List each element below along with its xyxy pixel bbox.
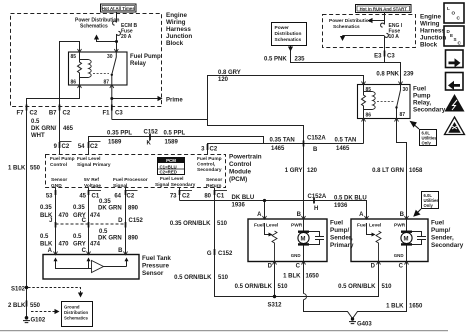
svg-text:DK BLU: DK BLU (232, 195, 255, 201)
svg-text:510: 510 (217, 221, 228, 227)
svg-text:C: C (399, 264, 404, 270)
svg-text:BLK: BLK (40, 242, 53, 248)
svg-text:510: 510 (218, 275, 229, 281)
svg-text:0.35 PPL: 0.35 PPL (107, 131, 132, 137)
svg-text:Distribution: Distribution (275, 31, 302, 37)
svg-text:F7: F7 (16, 111, 24, 117)
svg-text:550: 550 (30, 166, 41, 172)
svg-text:20 A: 20 A (121, 34, 132, 40)
svg-text:(PCM): (PCM) (229, 176, 247, 183)
svg-text:G102: G102 (31, 318, 46, 324)
svg-text:550: 550 (30, 303, 41, 309)
svg-text:0.35: 0.35 (99, 199, 111, 205)
svg-text:1 BLK: 1 BLK (386, 304, 404, 310)
svg-text:239: 239 (404, 72, 415, 78)
svg-text:Sensor: Sensor (142, 270, 164, 277)
svg-text:Fuel Pump: Fuel Pump (50, 156, 75, 162)
svg-text:G: G (207, 251, 212, 257)
svg-text:C3: C3 (115, 111, 123, 117)
svg-text:C2: C2 (210, 147, 218, 153)
svg-text:DK GRN/: DK GRN/ (31, 126, 57, 132)
svg-text:Wiring: Wiring (166, 19, 186, 26)
svg-text:120: 120 (307, 168, 318, 174)
svg-text:M: M (404, 236, 409, 242)
svg-text:0.8 GRY: 0.8 GRY (218, 70, 241, 76)
svg-text:120: 120 (218, 77, 229, 83)
svg-text:Level: Level (369, 223, 381, 229)
svg-text:890: 890 (128, 206, 139, 212)
svg-text:Control,: Control, (197, 162, 216, 168)
svg-text:B: B (400, 212, 405, 218)
svg-text:1589: 1589 (165, 140, 179, 146)
svg-text:Schematics: Schematics (333, 24, 360, 30)
svg-text:0.5 TAN: 0.5 TAN (335, 138, 357, 144)
svg-text:Distribution: Distribution (64, 310, 88, 315)
svg-text:C152A: C152A (307, 136, 326, 142)
svg-text:Fuel Pump: Fuel Pump (130, 54, 161, 60)
svg-text:1465: 1465 (271, 146, 285, 152)
svg-text:0.5 DK BLU: 0.5 DK BLU (334, 196, 367, 202)
svg-text:Fuel: Fuel (413, 86, 426, 93)
svg-text:1936: 1936 (232, 203, 246, 209)
svg-text:0.35 ORN/BLK: 0.35 ORN/BLK (170, 221, 211, 227)
svg-text:Schematics: Schematics (275, 37, 302, 43)
svg-text:Schematics: Schematics (64, 316, 88, 321)
svg-text:Control: Control (50, 162, 67, 168)
svg-text:Signal: Signal (113, 183, 127, 189)
svg-text:Power: Power (275, 25, 290, 31)
svg-text:Control: Control (229, 161, 252, 168)
svg-text:Wiring: Wiring (420, 21, 440, 28)
svg-text:85: 85 (71, 54, 77, 60)
svg-text:Hot At All Times: Hot At All Times (102, 6, 135, 11)
svg-text:470: 470 (59, 242, 70, 248)
svg-text:Junction: Junction (420, 35, 446, 42)
svg-text:G403: G403 (357, 322, 372, 328)
svg-text:0.5 PPL: 0.5 PPL (164, 131, 186, 137)
svg-text:Block: Block (420, 42, 438, 49)
svg-text:Pump: Pump (413, 93, 431, 100)
svg-text:C3: C3 (387, 54, 395, 60)
svg-text:Only: Only (424, 203, 434, 208)
svg-text:GRY: GRY (73, 242, 86, 248)
svg-text:GND: GND (291, 253, 301, 258)
svg-text:B: B (297, 212, 302, 218)
svg-text:5V Ref: 5V Ref (84, 177, 99, 183)
svg-text:Block: Block (166, 40, 184, 47)
svg-text:Fuel Level: Fuel Level (160, 176, 183, 182)
svg-text:DK GRN: DK GRN (98, 236, 122, 242)
svg-text:Sender,: Sender, (431, 235, 454, 242)
svg-text:0.5: 0.5 (99, 229, 108, 235)
svg-text:Fuel: Fuel (254, 223, 264, 229)
svg-text:M: M (301, 236, 306, 242)
svg-text:73: 73 (170, 194, 177, 200)
svg-text:474: 474 (90, 213, 101, 219)
svg-text:54: 54 (78, 144, 85, 150)
svg-text:Fuel Pump: Fuel Pump (197, 156, 222, 162)
svg-text:C152: C152 (144, 130, 159, 136)
svg-text:10 A: 10 A (389, 34, 400, 40)
svg-text:D: D (371, 264, 376, 270)
svg-text:A: A (48, 248, 53, 254)
svg-text:D: D (268, 264, 273, 270)
svg-text:Signal Primary: Signal Primary (77, 162, 111, 168)
svg-text:0.35 TAN: 0.35 TAN (270, 138, 295, 144)
svg-text:0.5: 0.5 (73, 234, 82, 240)
svg-text:Sensor: Sensor (51, 177, 67, 183)
svg-text:C2: C2 (62, 144, 70, 150)
svg-text:C2: C2 (30, 111, 38, 117)
svg-text:Secondary: Secondary (197, 167, 222, 173)
svg-text:0.35: 0.35 (40, 205, 52, 211)
svg-text:Fuel Level: Fuel Level (77, 156, 100, 162)
svg-text:C2: C2 (90, 144, 98, 150)
svg-text:465: 465 (63, 126, 74, 132)
svg-text:Module: Module (229, 169, 252, 176)
svg-text:C: C (82, 248, 87, 254)
svg-text:890: 890 (128, 236, 139, 242)
svg-text:Power Distribution: Power Distribution (329, 18, 372, 24)
svg-text:H: H (314, 206, 318, 212)
svg-text:1058: 1058 (409, 168, 423, 174)
svg-text:Secondary: Secondary (431, 242, 464, 249)
svg-text:Pressure: Pressure (142, 263, 169, 270)
svg-text:Primary: Primary (330, 242, 354, 249)
svg-text:O: O (452, 11, 456, 16)
svg-text:GND: GND (51, 183, 62, 189)
svg-text:B: B (313, 147, 318, 153)
svg-text:474: 474 (90, 242, 101, 248)
svg-text:C: C (296, 264, 301, 270)
svg-text:0.8 PNK: 0.8 PNK (376, 72, 399, 78)
svg-text:30: 30 (107, 54, 113, 60)
svg-text:Sensor: Sensor (206, 177, 222, 183)
svg-text:87: 87 (104, 80, 110, 86)
svg-text:Harness: Harness (420, 28, 445, 35)
svg-text:1650: 1650 (306, 274, 320, 280)
svg-text:45: 45 (79, 194, 86, 200)
svg-text:Schematics: Schematics (80, 24, 108, 30)
svg-text:PCM: PCM (166, 158, 176, 163)
svg-text:1589: 1589 (108, 140, 122, 146)
svg-text:Engine: Engine (420, 14, 441, 21)
svg-text:85: 85 (366, 87, 372, 93)
svg-text:Only: Only (422, 141, 432, 146)
svg-text:GND: GND (394, 253, 404, 258)
svg-text:1 BLK: 1 BLK (8, 166, 26, 172)
svg-text:DK GRN: DK GRN (98, 206, 122, 212)
svg-text:S102: S102 (11, 287, 26, 293)
svg-text:Hot In RUN And START: Hot In RUN And START (360, 6, 408, 11)
svg-text:L: L (447, 6, 450, 11)
svg-text:Voltage: Voltage (84, 183, 101, 189)
svg-text:Signal Secondary: Signal Secondary (155, 182, 196, 188)
svg-text:C152: C152 (218, 251, 233, 257)
svg-text:Fuel: Fuel (357, 223, 367, 229)
svg-text:A: A (359, 212, 364, 218)
svg-text:Junction: Junction (166, 33, 192, 40)
svg-text:87: 87 (400, 112, 406, 118)
svg-text:WHT: WHT (31, 133, 45, 139)
svg-text:Harness: Harness (166, 26, 191, 33)
svg-text:E3: E3 (374, 54, 382, 60)
svg-text:C2: C2 (182, 194, 190, 200)
svg-text:1650: 1650 (409, 304, 423, 310)
svg-text:C152A: C152A (308, 194, 327, 200)
svg-text:0.5: 0.5 (31, 119, 40, 125)
svg-text:2 BLK: 2 BLK (8, 303, 26, 309)
svg-text:510: 510 (278, 284, 289, 290)
svg-text:B: B (118, 248, 123, 254)
svg-text:1936: 1936 (334, 203, 348, 209)
svg-text:C2: C2 (127, 194, 135, 200)
svg-text:0.5: 0.5 (40, 234, 49, 240)
svg-text:Relay,: Relay, (413, 100, 431, 107)
svg-text:Pump/: Pump/ (431, 227, 450, 234)
svg-text:0.5 ORN/BLK: 0.5 ORN/BLK (174, 275, 212, 281)
svg-text:1 GRY: 1 GRY (285, 168, 303, 174)
svg-text:J: J (49, 218, 52, 224)
svg-text:Prime: Prime (166, 98, 183, 104)
svg-text:Secondary: Secondary (413, 107, 446, 114)
svg-text:Fuel: Fuel (330, 220, 343, 227)
svg-text:64: 64 (114, 194, 121, 200)
svg-text:B7: B7 (49, 111, 57, 117)
svg-text:0.5 ORN/BLK: 0.5 ORN/BLK (235, 284, 273, 290)
svg-text:Return: Return (206, 183, 222, 189)
svg-text:PWR: PWR (291, 223, 303, 229)
svg-text:1 BLK: 1 BLK (283, 274, 301, 280)
svg-text:80: 80 (204, 194, 211, 200)
svg-text:0.35: 0.35 (73, 205, 85, 211)
svg-text:A: A (257, 212, 262, 218)
svg-text:Powertrain: Powertrain (229, 154, 262, 161)
svg-text:Fuel Processor: Fuel Processor (113, 177, 148, 183)
svg-text:Relay: Relay (130, 61, 147, 67)
svg-text:0.8 LT GRN: 0.8 LT GRN (372, 168, 404, 174)
svg-text:S312: S312 (268, 303, 283, 309)
svg-text:C2: C2 (63, 111, 71, 117)
svg-text:470: 470 (59, 213, 70, 219)
svg-text:F1: F1 (102, 111, 110, 117)
svg-text:C152: C152 (129, 218, 144, 224)
svg-text:K: K (147, 141, 152, 147)
svg-text:Sender,: Sender, (330, 235, 353, 242)
svg-text:C1: C1 (217, 194, 225, 200)
svg-text:C: C (82, 218, 87, 224)
svg-text:Level: Level (266, 223, 278, 229)
svg-text:Pump/: Pump/ (330, 227, 349, 234)
svg-text:0.5 PNK: 0.5 PNK (264, 57, 287, 63)
svg-text:235: 235 (295, 57, 306, 63)
svg-text:86: 86 (71, 80, 77, 86)
svg-text:30: 30 (403, 87, 409, 93)
svg-text:53: 53 (46, 194, 53, 200)
svg-text:PWR: PWR (394, 223, 406, 229)
svg-text:D: D (118, 218, 123, 224)
svg-text:Engine: Engine (166, 12, 187, 19)
svg-text:S: S (454, 37, 457, 42)
svg-text:Ground: Ground (64, 305, 80, 310)
svg-text:86: 86 (366, 113, 372, 119)
svg-text:Fuel Tank: Fuel Tank (142, 255, 171, 262)
svg-text:1465: 1465 (336, 146, 350, 152)
svg-text:510: 510 (382, 284, 393, 290)
svg-text:C2=RED: C2=RED (160, 170, 177, 175)
svg-text:0.5 ORN/BLK: 0.5 ORN/BLK (338, 284, 376, 290)
svg-text:Fuel: Fuel (431, 220, 444, 227)
